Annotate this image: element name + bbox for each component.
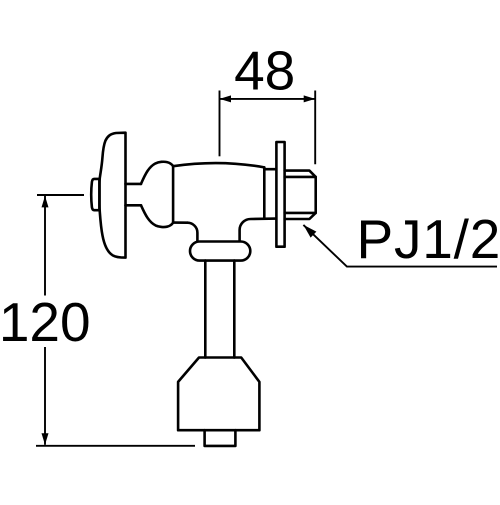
120 dim line upper segment [44,196,46,296]
120 dim: bottom extension line [36,445,195,447]
120 dim arrow top [42,196,49,208]
svg-text:48: 48 [234,40,295,102]
branch right side with fillet [240,219,277,242]
nut / thread PJ1/2 [285,171,316,219]
nut chamfer line bottom [285,212,316,215]
PJ1/2 leader line [303,225,497,267]
outlet spout [205,430,236,446]
collar nut below body [190,242,250,261]
48 dim arrow left [220,95,232,102]
handle wheel (side view) [100,133,126,258]
body end vertical [263,167,266,218]
neck top line [264,168,276,171]
lower hex body [178,358,259,431]
48 dim arrow right [304,95,316,102]
48 dim line [220,98,316,100]
48 dim: right extension line [314,91,316,165]
body top edge [173,163,264,167]
PJ1/2 leader arrowhead [303,225,316,238]
120 dim line lower segment [44,347,46,445]
stem top line [126,183,142,186]
120 dim arrow bottom [42,433,49,445]
svg-text:PJ1/2: PJ1/2 [357,208,500,270]
nut chamfer line top [285,176,316,179]
48 dim: left extension line [219,91,221,157]
bonnet outline [141,162,173,227]
120 dim: top extension line [37,194,84,196]
handle cap screw cover [91,179,99,210]
body bottom edge left [173,221,187,224]
down pipe right [233,261,236,358]
svg-text:120: 120 [0,291,91,353]
branch left side with fillet [187,223,197,242]
flange [276,142,284,247]
down pipe left [204,261,207,358]
stem bottom line [126,204,142,207]
